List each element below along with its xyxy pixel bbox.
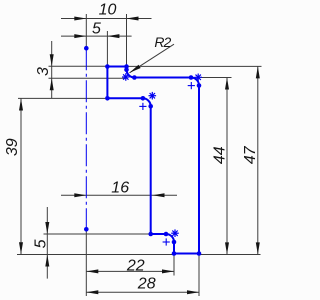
svg-text:47: 47: [242, 145, 259, 164]
svg-text:R2: R2: [154, 34, 171, 50]
svg-text:28: 28: [137, 276, 156, 293]
svg-text:5: 5: [32, 239, 49, 248]
svg-text:44: 44: [211, 146, 228, 164]
svg-text:16: 16: [111, 180, 129, 197]
svg-text:3: 3: [35, 67, 52, 76]
svg-text:10: 10: [99, 1, 117, 18]
svg-text:39: 39: [4, 138, 21, 156]
svg-text:22: 22: [126, 257, 145, 274]
svg-text:5: 5: [92, 20, 101, 37]
